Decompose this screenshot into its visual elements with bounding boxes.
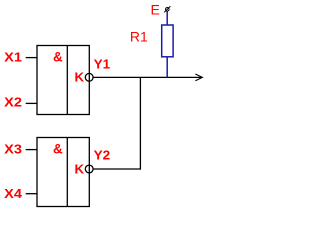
svg-text:X1: X1 [4, 50, 22, 65]
svg-text:X3: X3 [4, 142, 22, 157]
svg-text:R1: R1 [130, 29, 148, 45]
svg-text:X4: X4 [4, 186, 23, 201]
svg-text:&: & [53, 142, 63, 157]
svg-text:&: & [53, 50, 63, 65]
svg-text:K: K [75, 69, 85, 84]
svg-text:E: E [151, 2, 160, 18]
svg-text:X2: X2 [4, 94, 22, 109]
svg-text:Y1: Y1 [94, 56, 111, 71]
svg-text:Y2: Y2 [94, 147, 111, 162]
svg-text:K: K [75, 161, 85, 176]
